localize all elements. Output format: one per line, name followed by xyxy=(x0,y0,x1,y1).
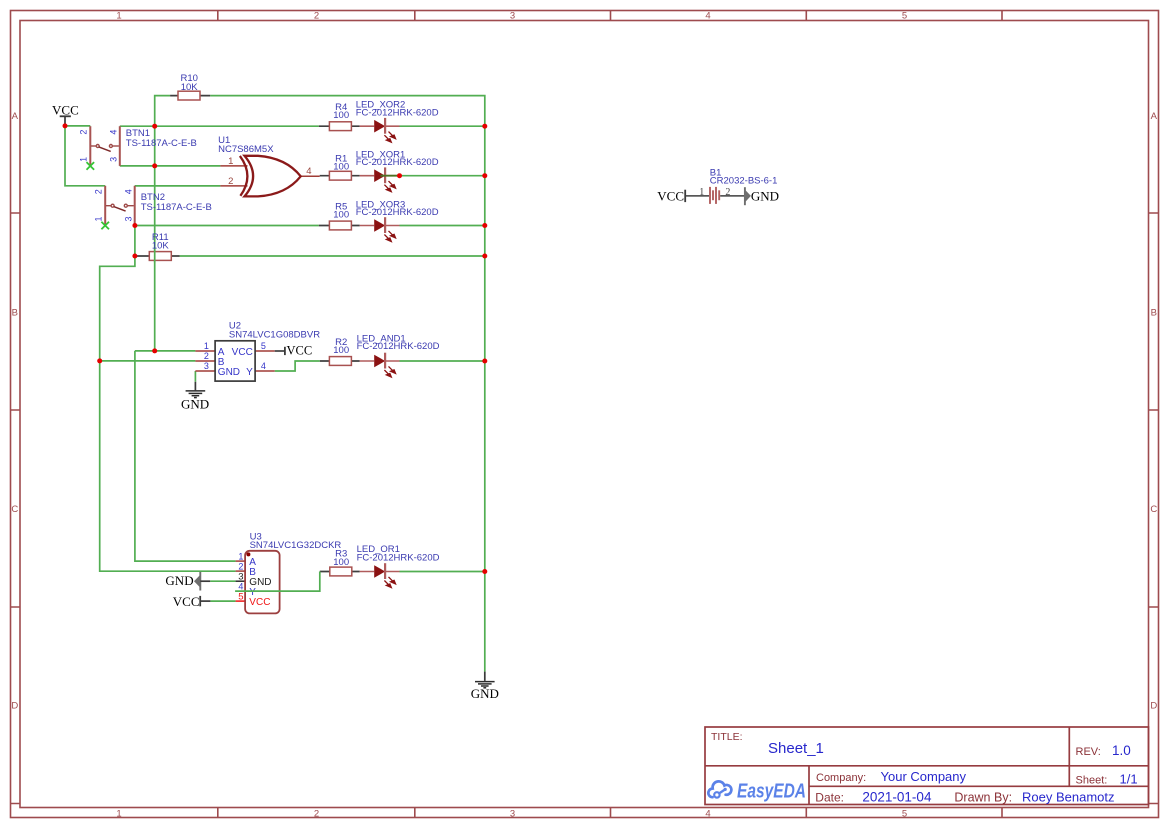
svg-text:1: 1 xyxy=(93,216,103,221)
svg-text:2021-01-04: 2021-01-04 xyxy=(862,790,932,805)
svg-text:Y: Y xyxy=(246,367,253,378)
svg-text:TITLE:: TITLE: xyxy=(711,731,743,743)
svg-text:Roey Benamotz: Roey Benamotz xyxy=(1022,790,1115,805)
svg-text:NC7S86M5X: NC7S86M5X xyxy=(218,144,274,155)
svg-text:VCC: VCC xyxy=(173,594,200,609)
svg-text:2: 2 xyxy=(314,11,319,22)
svg-text:FC-2012HRK-620D: FC-2012HRK-620D xyxy=(357,552,440,563)
svg-text:D: D xyxy=(1150,701,1157,712)
svg-text:2: 2 xyxy=(228,176,233,187)
svg-text:FC-2012HRK-620D: FC-2012HRK-620D xyxy=(356,107,439,118)
svg-text:GND: GND xyxy=(218,367,240,378)
svg-text:3: 3 xyxy=(124,216,134,221)
svg-text:D: D xyxy=(11,701,18,712)
svg-text:1: 1 xyxy=(116,809,121,820)
svg-text:4: 4 xyxy=(109,130,119,135)
svg-text:4: 4 xyxy=(705,809,710,820)
svg-text:2: 2 xyxy=(79,130,89,135)
svg-text:2: 2 xyxy=(93,189,103,194)
svg-text:C: C xyxy=(1150,504,1157,515)
svg-text:1: 1 xyxy=(238,551,243,561)
svg-text:5: 5 xyxy=(902,809,907,820)
svg-text:1: 1 xyxy=(699,187,704,198)
svg-text:REV:: REV: xyxy=(1076,746,1101,758)
svg-text:Sheet:: Sheet: xyxy=(1076,775,1108,787)
svg-text:GND: GND xyxy=(471,686,499,701)
svg-text:5: 5 xyxy=(902,11,907,22)
svg-text:2: 2 xyxy=(238,561,243,571)
svg-text:SN74LVC1G32DCKR: SN74LVC1G32DCKR xyxy=(250,540,342,551)
svg-text:VCC: VCC xyxy=(52,102,79,117)
svg-text:FC-2012HRK-620D: FC-2012HRK-620D xyxy=(357,341,440,352)
svg-text:VCC: VCC xyxy=(232,347,253,358)
svg-text:1/1: 1/1 xyxy=(1120,772,1138,787)
svg-text:10K: 10K xyxy=(152,241,170,252)
svg-text:100: 100 xyxy=(333,557,349,568)
svg-text:Sheet_1: Sheet_1 xyxy=(768,740,824,757)
svg-text:4: 4 xyxy=(306,166,311,177)
svg-text:5: 5 xyxy=(261,341,266,351)
svg-text:3: 3 xyxy=(204,361,209,371)
svg-text:Your Company: Your Company xyxy=(881,769,967,784)
svg-text:A: A xyxy=(1151,111,1158,122)
svg-text:5: 5 xyxy=(238,591,243,602)
svg-text:3: 3 xyxy=(109,157,119,162)
svg-text:FC-2012HRK-620D: FC-2012HRK-620D xyxy=(356,157,439,168)
svg-text:4: 4 xyxy=(705,11,710,22)
svg-text:VCC: VCC xyxy=(287,344,313,358)
svg-text:2: 2 xyxy=(725,187,730,198)
svg-text:GND: GND xyxy=(751,189,779,204)
svg-text:Date:: Date: xyxy=(815,791,844,805)
svg-text:2: 2 xyxy=(314,809,319,820)
svg-text:1.0: 1.0 xyxy=(1112,743,1131,758)
svg-text:A: A xyxy=(12,111,19,122)
svg-text:100: 100 xyxy=(333,162,349,173)
svg-text:4: 4 xyxy=(261,361,266,371)
svg-text:GND: GND xyxy=(181,396,209,411)
svg-text:1: 1 xyxy=(116,11,121,22)
svg-text:2: 2 xyxy=(204,351,209,361)
svg-text:CR2032-BS-6-1: CR2032-BS-6-1 xyxy=(710,175,778,186)
svg-text:VCC: VCC xyxy=(249,597,270,608)
svg-text:GND: GND xyxy=(165,573,193,588)
svg-text:100: 100 xyxy=(333,210,349,221)
svg-text:TS-1187A-C-E-B: TS-1187A-C-E-B xyxy=(126,138,197,149)
svg-text:VCC: VCC xyxy=(657,189,684,204)
svg-text:Drawn By:: Drawn By: xyxy=(954,791,1012,805)
svg-text:3: 3 xyxy=(510,809,515,820)
svg-text:B: B xyxy=(1151,308,1157,319)
svg-text:100: 100 xyxy=(333,110,349,121)
svg-text:C: C xyxy=(11,504,18,515)
svg-text:1: 1 xyxy=(204,341,209,351)
svg-text:4: 4 xyxy=(124,189,134,194)
svg-text:TS-1187A-C-E-B: TS-1187A-C-E-B xyxy=(141,202,212,213)
svg-text:4: 4 xyxy=(238,581,243,591)
svg-text:B: B xyxy=(12,308,18,319)
svg-text:EasyEDA: EasyEDA xyxy=(737,780,806,802)
svg-text:Company:: Company: xyxy=(816,772,866,784)
svg-text:1: 1 xyxy=(79,157,89,162)
svg-text:100: 100 xyxy=(333,345,349,356)
svg-text:SN74LVC1G08DBVR: SN74LVC1G08DBVR xyxy=(229,329,320,340)
svg-text:10K: 10K xyxy=(181,82,199,93)
svg-text:3: 3 xyxy=(510,11,515,22)
svg-text:FC-2012HRK-620D: FC-2012HRK-620D xyxy=(356,207,439,218)
svg-text:1: 1 xyxy=(228,156,233,167)
